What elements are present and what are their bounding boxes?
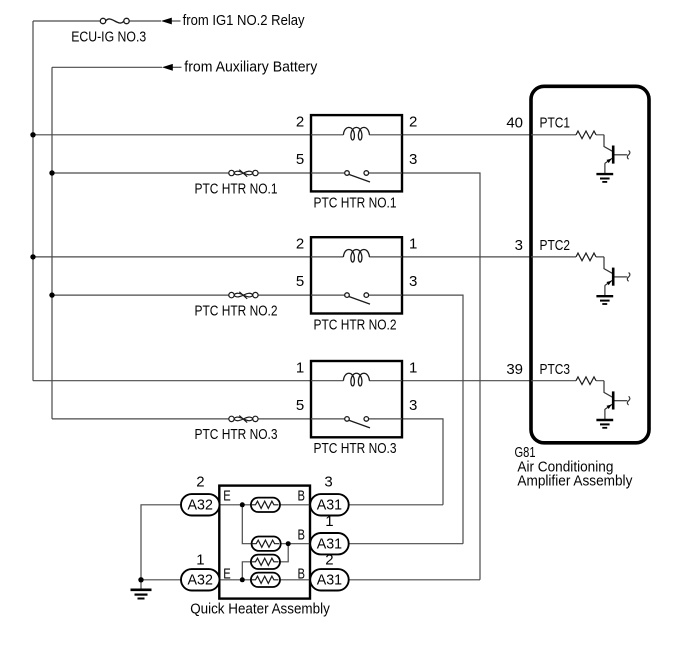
wire relay1 pin5 left y173 bbox=[52, 172, 311, 174]
wire relay2 pin2 left y256.9 bbox=[33, 256, 311, 258]
svg-text:1: 1 bbox=[296, 359, 304, 376]
svg-text:A31: A31 bbox=[317, 535, 342, 552]
junction node V2/relay1 bbox=[49, 170, 54, 175]
svg-text:3: 3 bbox=[515, 237, 523, 254]
junction node V1/relay2 bbox=[30, 254, 35, 259]
wire arrow tail IG1 bbox=[172, 20, 181, 22]
wire relay2 pin5 left y295.1 bbox=[52, 294, 311, 296]
svg-text:PTC HTR NO.2: PTC HTR NO.2 bbox=[314, 316, 397, 333]
wire relay3 pin1 left y380.7 bbox=[33, 380, 311, 382]
wire A31 pin2 to V5 bbox=[348, 579, 480, 581]
wire PTC1 internal bbox=[531, 134, 604, 136]
svg-text:5: 5 bbox=[296, 397, 304, 414]
svg-text:3: 3 bbox=[409, 273, 417, 290]
svg-text:E: E bbox=[223, 487, 231, 504]
svg-text:PTC HTR NO.1: PTC HTR NO.1 bbox=[314, 194, 397, 211]
svg-text:from Auxiliary Battery: from Auxiliary Battery bbox=[184, 59, 317, 76]
wire relay3 pin3 to V3 bbox=[402, 419, 443, 505]
svg-text:A32: A32 bbox=[188, 497, 213, 514]
quick heater internal wires bbox=[220, 505, 311, 580]
ground Q2 bbox=[596, 296, 613, 304]
connector A32 pin 2 bbox=[181, 494, 220, 515]
connector A31 pin 2 bbox=[310, 569, 349, 590]
relay1 internal wires bbox=[311, 135, 402, 173]
wire R3 left down to row4 bbox=[242, 562, 251, 580]
wire relay3 pin1 right to amplifier bbox=[402, 380, 531, 382]
svg-text:3: 3 bbox=[409, 151, 417, 168]
relay2 switch contact bbox=[345, 293, 370, 304]
junction node row1 E bbox=[240, 502, 245, 507]
wire row1 junction down to R2 bbox=[242, 505, 251, 544]
svg-text:1: 1 bbox=[409, 236, 417, 253]
wire row4 E to R4 to B bbox=[220, 579, 311, 581]
svg-text:PTC HTR NO.3: PTC HTR NO.3 bbox=[314, 440, 397, 457]
junction node ground bus bbox=[138, 577, 143, 582]
svg-text:1: 1 bbox=[325, 513, 333, 530]
wire relay3 pin5 left y418.9 bbox=[52, 418, 311, 420]
wire A31 pin1 to V4 bbox=[348, 543, 463, 545]
fuse ECU-IG NO.3 bbox=[100, 18, 129, 23]
ground G bottom-left bbox=[131, 590, 152, 599]
wire PTC2 internal bbox=[531, 256, 604, 258]
wire relay2 pin1 right to amplifier bbox=[402, 256, 531, 258]
svg-text:5: 5 bbox=[296, 273, 304, 290]
transistor Q1 bbox=[604, 135, 630, 174]
resistor heater R2 bbox=[252, 537, 281, 551]
fusible link PTC HTR NO.3 bbox=[229, 416, 258, 423]
wire R2 right to junction bbox=[281, 543, 311, 545]
svg-text:40: 40 bbox=[506, 114, 523, 131]
relay1 switch contact bbox=[345, 171, 370, 182]
svg-text:B: B bbox=[298, 565, 306, 582]
resistor heater R3 bbox=[251, 555, 280, 569]
wire relay1 pin2 right to amplifier bbox=[402, 134, 531, 136]
svg-text:1: 1 bbox=[409, 359, 417, 376]
relay PTC HTR NO.3 box bbox=[311, 361, 402, 437]
svg-text:5: 5 bbox=[296, 151, 304, 168]
resistor PTC3 bbox=[576, 377, 596, 385]
wire relay1 pin2 left y134.8 bbox=[33, 134, 311, 136]
svg-text:A32: A32 bbox=[188, 572, 213, 589]
svg-text:1: 1 bbox=[196, 552, 204, 569]
relay PTC HTR NO.1 box bbox=[311, 115, 402, 191]
arrow from IG1 NO.2 Relay bbox=[161, 18, 172, 25]
relay2 internal wires bbox=[311, 257, 402, 295]
ground Q1 bbox=[596, 174, 613, 182]
svg-text:PTC3: PTC3 bbox=[540, 361, 571, 378]
svg-text:39: 39 bbox=[506, 361, 523, 378]
wire vertical bus V1 x33 bbox=[32, 21, 34, 381]
junction node row2 B bbox=[286, 541, 291, 546]
svg-text:Quick Heater Assembly: Quick Heater Assembly bbox=[190, 600, 330, 617]
svg-text:2: 2 bbox=[325, 551, 333, 568]
relay3 switch contact bbox=[345, 417, 370, 428]
wire auxiliary battery horizontal y67 bbox=[52, 66, 162, 68]
resistor heater R1 bbox=[251, 498, 280, 512]
wire relay2 pin3 to V4 bbox=[402, 295, 463, 544]
Quick Heater Assembly box bbox=[219, 486, 310, 599]
svg-text:from IG1 NO.2 Relay: from IG1 NO.2 Relay bbox=[183, 12, 305, 29]
relay PTC HTR NO.2 box bbox=[311, 237, 402, 313]
svg-text:E: E bbox=[223, 565, 231, 582]
transistor Q2 bbox=[604, 257, 630, 296]
svg-text:A31: A31 bbox=[317, 497, 342, 514]
wire R3 right up to junction bbox=[280, 544, 288, 562]
svg-text:2: 2 bbox=[409, 113, 417, 130]
svg-text:2: 2 bbox=[296, 236, 304, 253]
relay2 coil bbox=[343, 249, 369, 262]
svg-text:PTC HTR NO.1: PTC HTR NO.1 bbox=[195, 180, 278, 197]
connector A31 pin 3 bbox=[310, 494, 349, 515]
op-amp assembly box G81 (Air Conditioning Amplifier Assembly) bbox=[531, 86, 649, 443]
wire fuse feed horizontal y21 bbox=[33, 20, 100, 22]
wire A32 pin1 to ground junction bbox=[141, 579, 181, 581]
wire A31 pin3 to V3 bbox=[348, 504, 443, 506]
svg-text:B: B bbox=[298, 487, 306, 504]
transistor Q3 bbox=[604, 381, 630, 420]
svg-text:2: 2 bbox=[196, 474, 204, 491]
junction node V1/relay1 bbox=[30, 132, 35, 137]
wire A32 pin2 to ground bus V6 bbox=[141, 505, 181, 580]
svg-text:3: 3 bbox=[409, 397, 417, 414]
connector A32 pin 1 bbox=[181, 569, 220, 590]
svg-text:PTC HTR NO.3: PTC HTR NO.3 bbox=[195, 426, 278, 443]
wire vertical bus V2 x52 bbox=[51, 67, 53, 419]
svg-text:ECU-IG NO.3: ECU-IG NO.3 bbox=[71, 28, 146, 45]
resistor PTC1 bbox=[576, 131, 596, 139]
wire ground stub bbox=[140, 580, 142, 590]
relay1 coil bbox=[343, 127, 369, 140]
svg-text:PTC2: PTC2 bbox=[540, 237, 571, 254]
relay3 coil bbox=[343, 373, 369, 386]
ground Q3 bbox=[596, 420, 613, 428]
wire arrow tail auxiliary bbox=[173, 66, 182, 68]
svg-text:PTC1: PTC1 bbox=[540, 114, 571, 131]
arrow from Auxiliary Battery bbox=[162, 64, 173, 71]
svg-text:B: B bbox=[298, 527, 306, 544]
svg-text:3: 3 bbox=[324, 474, 332, 491]
resistor PTC2 bbox=[576, 253, 596, 261]
junction node row4 E bbox=[240, 577, 245, 582]
wire PTC3 internal bbox=[531, 380, 604, 382]
junction node V2/relay2 bbox=[49, 292, 54, 297]
svg-text:2: 2 bbox=[296, 113, 304, 130]
relay3 internal wires bbox=[311, 381, 402, 419]
connector A31 pin 1 bbox=[310, 533, 349, 554]
wire row1 E to R1 to B bbox=[220, 504, 311, 506]
svg-text:PTC HTR NO.2: PTC HTR NO.2 bbox=[195, 303, 278, 320]
resistor heater R4 bbox=[251, 573, 280, 587]
svg-text:A31: A31 bbox=[317, 572, 342, 589]
fusible link PTC HTR NO.2 bbox=[229, 292, 258, 299]
svg-text:Amplifier Assembly: Amplifier Assembly bbox=[517, 473, 632, 490]
fusible link PTC HTR NO.1 bbox=[229, 170, 258, 177]
wire fuse to IG1 arrow bbox=[129, 20, 161, 22]
wire relay1 pin3 to V5 bbox=[402, 173, 480, 580]
